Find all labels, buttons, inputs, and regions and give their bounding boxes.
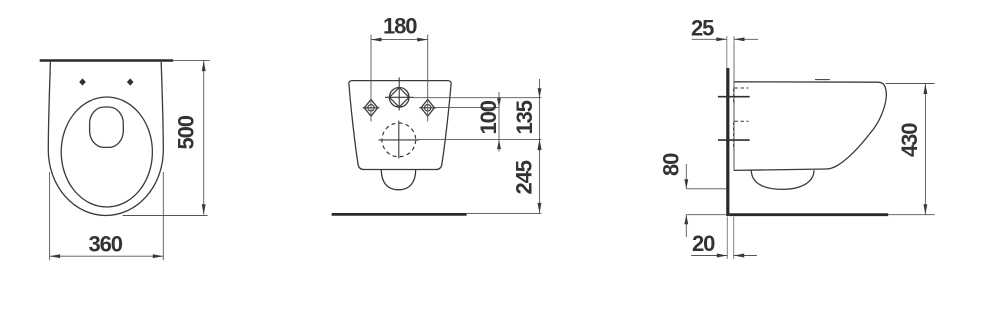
dim 25 extension lines xyxy=(726,36,728,68)
seat hinge tick on top edge xyxy=(815,79,830,81)
inlet inscribed diamond xyxy=(389,88,409,108)
fixing bolt upper xyxy=(718,96,750,98)
dim 135 arrows (outside) xyxy=(538,88,542,98)
dim 360 left extension line xyxy=(49,172,51,260)
extension line inlet level xyxy=(412,97,542,99)
left seat-hinge diamond xyxy=(79,78,86,85)
dim 500 top extension line xyxy=(173,59,210,61)
floor extension right xyxy=(888,214,935,216)
inlet crosshair xyxy=(385,96,414,98)
hidden dashed line lower xyxy=(735,120,749,122)
svg-text:25: 25 xyxy=(691,16,714,41)
dim 500 bottom extension line xyxy=(123,215,208,217)
dim 180 right extension line xyxy=(427,35,429,122)
hidden dashed line upper xyxy=(735,87,749,89)
dim 180 dimension line xyxy=(371,39,428,41)
dim 25 dimension line with outside arrows xyxy=(692,38,727,40)
dim 430 top extension line xyxy=(886,83,935,85)
left fixing hole circle xyxy=(368,105,374,111)
dim 180 arrows xyxy=(371,38,382,42)
dim 500 arrow down xyxy=(202,204,206,215)
outlet dashed circle xyxy=(382,123,416,157)
dim 80 extension line (bowl bottom) xyxy=(686,188,727,190)
dim 360 dimension line xyxy=(50,255,164,257)
extension line floor level xyxy=(467,212,542,214)
right fixing hole circle xyxy=(425,105,431,111)
right fixing hole diamond xyxy=(421,100,434,117)
svg-text:360: 360 xyxy=(89,232,123,257)
drain opening xyxy=(90,107,124,147)
dim 100 dimension line (outside arrows) xyxy=(498,92,500,152)
water inlet circle xyxy=(389,88,409,108)
left fixing hole: crosshair xyxy=(363,107,380,109)
extension line fixing hole level xyxy=(436,107,499,109)
toilet profile outline xyxy=(734,82,886,171)
bowl bottom arc xyxy=(381,170,415,190)
svg-text:500: 500 xyxy=(174,115,199,149)
svg-text:80: 80 xyxy=(659,153,684,176)
toilet back face line xyxy=(733,42,735,171)
floor line (thick) xyxy=(332,213,467,216)
dim 360 arrow right xyxy=(153,254,164,258)
hidden dashed vertical marks xyxy=(733,89,735,106)
wall line (thick vertical) xyxy=(726,68,729,216)
bowl rim ellipse xyxy=(61,97,152,207)
svg-text:135: 135 xyxy=(512,100,537,134)
fixing bolt lower xyxy=(718,139,750,141)
dim 135 / 245 dimension line xyxy=(539,79,541,213)
toilet body outline xyxy=(48,62,163,216)
outlet crosshair xyxy=(379,139,420,141)
dim 20 extension lines below floor xyxy=(726,217,728,260)
left fixing hole diamond xyxy=(364,100,377,117)
body outline xyxy=(349,81,451,170)
dim 80 dimension line with outside arrows xyxy=(685,164,687,189)
bowl underside arc xyxy=(751,170,814,189)
dim 180 left extension line xyxy=(370,35,372,122)
svg-text:180: 180 xyxy=(383,14,417,39)
svg-text:430: 430 xyxy=(897,123,922,157)
dim 360 arrow left xyxy=(50,254,61,258)
dim 20 dimension line with outside arrows xyxy=(691,255,727,257)
wall line (thick) xyxy=(40,59,174,62)
dim 500 arrow up xyxy=(202,61,206,72)
right fixing hole crosshair xyxy=(419,107,436,109)
floor line (thick) xyxy=(730,213,889,216)
floor extension left of wall xyxy=(686,214,727,216)
extension line outlet level xyxy=(417,139,542,141)
dim 245 arrows (inside) xyxy=(538,140,542,151)
dim 430 dimension line xyxy=(924,84,926,215)
dim 360 right extension line xyxy=(162,172,164,260)
dim 500 dimension line xyxy=(203,61,205,215)
svg-text:20: 20 xyxy=(692,231,715,256)
right seat-hinge diamond xyxy=(127,78,134,85)
svg-text:100: 100 xyxy=(476,100,501,134)
svg-text:245: 245 xyxy=(512,160,537,194)
